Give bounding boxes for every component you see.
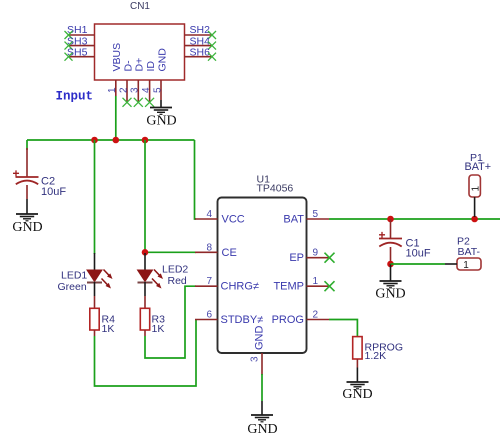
- svg-text:1K: 1K: [102, 323, 115, 335]
- svg-text:GND: GND: [156, 48, 168, 72]
- svg-text:ID: ID: [145, 61, 157, 72]
- svg-text:LED2: LED2: [162, 263, 188, 275]
- wire VBUS down from pin 1: [115, 96, 117, 140]
- pin 3 GND of U1: [250, 353, 263, 375]
- svg-text:TEMP: TEMP: [273, 281, 304, 293]
- node junction C1: [387, 216, 394, 223]
- svg-text:1: 1: [463, 260, 469, 271]
- svg-text:4: 4: [206, 209, 212, 220]
- svg-text:CE: CE: [222, 247, 237, 259]
- net label Input: [56, 90, 94, 104]
- pin 9 EP (no connect): [289, 248, 334, 265]
- svg-text:3: 3: [250, 356, 261, 362]
- svg-text:CHRG≠: CHRG≠: [221, 281, 259, 293]
- capacitor C1: [379, 219, 431, 264]
- resistor R4: [90, 296, 115, 336]
- svg-text:1.2K: 1.2K: [365, 350, 387, 362]
- svg-text:BAT+: BAT+: [465, 161, 492, 173]
- node junction C2 branch: [91, 137, 98, 144]
- ground at C1: [375, 264, 405, 302]
- svg-text:BAT-: BAT-: [458, 246, 481, 258]
- wire R3 to CHRG: [145, 286, 196, 358]
- svg-text:7: 7: [206, 276, 212, 287]
- wire bus to VCC: [195, 140, 197, 219]
- svg-text:LED1: LED1: [61, 270, 87, 282]
- pin 5 of CN1: [152, 80, 163, 100]
- wire C1 to P2: [391, 263, 446, 265]
- svg-text:1: 1: [471, 186, 482, 192]
- svg-text:CN1: CN1: [130, 1, 150, 12]
- pin SH5: [65, 46, 95, 60]
- node junction P2 branch: [387, 261, 394, 268]
- svg-text:Green: Green: [58, 281, 87, 293]
- svg-text:GND: GND: [12, 220, 42, 235]
- connector CN1: [95, 1, 185, 80]
- pin SH4: [185, 35, 217, 49]
- svg-text:GND: GND: [247, 422, 277, 435]
- svg-text:5: 5: [152, 87, 163, 93]
- ground at CN1 pin 5: [146, 100, 176, 129]
- wire CE branch: [145, 251, 196, 253]
- pin 7 CHRG#: [195, 276, 259, 293]
- svg-text:5: 5: [313, 209, 319, 220]
- node junction CE: [142, 249, 149, 256]
- pin 4 VCC: [195, 209, 245, 226]
- resistor RPROG: [353, 337, 403, 368]
- wire PROG to RPROG: [329, 320, 357, 338]
- node junction P1: [471, 216, 478, 223]
- svg-text:1: 1: [313, 276, 319, 287]
- svg-text:4: 4: [141, 87, 152, 93]
- wire bus down to C2: [26, 140, 28, 150]
- svg-text:GND: GND: [254, 326, 266, 351]
- connector P1 BAT+: [465, 152, 492, 217]
- LED LED2: [138, 253, 189, 296]
- pin 8 CE: [195, 242, 237, 259]
- node junction LED2 branch: [142, 137, 149, 144]
- svg-text:VCC: VCC: [222, 214, 245, 226]
- svg-text:Red: Red: [168, 275, 187, 287]
- pin 5 BAT: [283, 209, 329, 226]
- IC U1 TP4056: [218, 174, 307, 354]
- svg-text:10uF: 10uF: [406, 248, 431, 260]
- ground at RPROG: [342, 368, 372, 403]
- wire bus down to LED1: [94, 140, 96, 254]
- svg-text:D+: D+: [134, 58, 146, 72]
- ground at U1 pin 3: [247, 401, 277, 435]
- svg-text:2: 2: [313, 310, 319, 321]
- svg-text:Input: Input: [56, 90, 94, 104]
- wire main VBUS bus horizontal: [27, 139, 195, 141]
- svg-text:+: +: [379, 228, 386, 242]
- connector P2 BAT-: [445, 236, 481, 272]
- wire BAT bus: [329, 218, 500, 220]
- pin 2 of CN1 (no connect): [118, 80, 131, 107]
- ground at C2: [12, 199, 42, 235]
- svg-text:VBUS: VBUS: [111, 43, 123, 72]
- pin 6 STDBY#: [195, 310, 263, 327]
- pin SH1: [65, 24, 95, 39]
- pin 4 of CN1 (no connect): [141, 80, 154, 107]
- capacitor C2: [13, 148, 67, 199]
- svg-text:D-: D-: [122, 60, 134, 72]
- node junction VBUS: [113, 137, 120, 144]
- svg-text:TP4056: TP4056: [257, 183, 294, 195]
- svg-text:1K: 1K: [152, 323, 165, 335]
- svg-text:1: 1: [107, 87, 118, 93]
- pin SH6: [185, 46, 217, 60]
- wire pin3 to ground: [261, 374, 263, 401]
- svg-text:BAT: BAT: [283, 214, 304, 226]
- svg-text:+: +: [13, 167, 20, 181]
- pin SH2: [185, 24, 217, 39]
- svg-text:GND: GND: [342, 387, 372, 402]
- pin 1 TEMP (no connect): [273, 276, 334, 293]
- pin 2 PROG: [272, 310, 329, 327]
- pin 1 VBUS of CN1: [107, 80, 118, 96]
- svg-text:PROG: PROG: [272, 314, 304, 326]
- svg-text:EP: EP: [289, 252, 304, 264]
- svg-text:GND: GND: [375, 287, 405, 302]
- svg-text:2: 2: [118, 87, 129, 93]
- LED LED1: [58, 253, 113, 296]
- svg-text:10uF: 10uF: [41, 186, 66, 198]
- pin SH3: [65, 35, 95, 49]
- svg-text:STDBY≠: STDBY≠: [221, 314, 264, 326]
- svg-text:3: 3: [130, 87, 141, 93]
- svg-text:9: 9: [313, 248, 319, 259]
- resistor R3: [140, 296, 165, 336]
- svg-text:8: 8: [206, 242, 212, 253]
- wire bus down to LED2: [144, 140, 146, 254]
- wire R4 to STDBY: [95, 320, 197, 387]
- pin 3 of CN1 (no connect): [130, 80, 143, 107]
- svg-text:6: 6: [206, 310, 212, 321]
- svg-text:GND: GND: [146, 114, 176, 129]
